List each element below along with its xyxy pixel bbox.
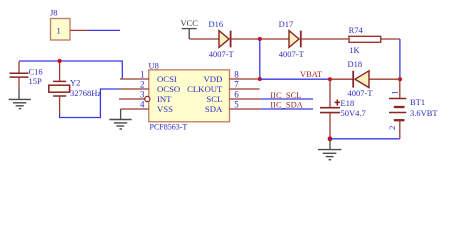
svg-text:4007-T: 4007-T — [279, 49, 305, 59]
node E18 junction — [328, 77, 332, 81]
svg-text:VSS: VSS — [157, 104, 173, 114]
svg-text:SDA: SDA — [205, 104, 223, 114]
svg-text:6: 6 — [234, 90, 239, 100]
svg-text:OCSO: OCSO — [157, 84, 180, 94]
wire junction down to VBAT — [259, 39, 261, 79]
svg-text:SCL: SCL — [206, 94, 222, 104]
svg-text:4: 4 — [140, 100, 145, 110]
wire battery bottom to ground — [330, 138, 400, 140]
svg-text:D18: D18 — [348, 59, 363, 69]
svg-text:OCSI: OCSI — [157, 74, 177, 84]
svg-text:4007-T: 4007-T — [348, 88, 374, 98]
svg-text:3.6VBT: 3.6VBT — [410, 108, 438, 118]
node ground junction — [328, 136, 333, 141]
ground (C16) — [9, 89, 31, 109]
connector J8 — [50, 8, 88, 41]
svg-text:U8: U8 — [149, 60, 159, 70]
pin 4 — [121, 100, 149, 110]
svg-text:2: 2 — [387, 126, 397, 130]
wire R74 to right rail — [381, 38, 400, 40]
resistor R74 — [349, 25, 381, 55]
svg-text:Y2: Y2 — [70, 78, 80, 88]
pin 3 — [119, 90, 150, 102]
svg-text:D17: D17 — [279, 19, 294, 29]
wire Y2 bottom to pin2 — [60, 89, 119, 118]
svg-text:2: 2 — [140, 80, 145, 90]
pin 2 — [119, 80, 149, 90]
capacitor E18 (electrolytic) — [320, 79, 366, 139]
svg-text:R74: R74 — [349, 25, 364, 35]
diode D18 — [330, 59, 400, 98]
pin 1 — [120, 70, 149, 80]
svg-text:1: 1 — [140, 70, 145, 80]
wire top rail C16/Y2 to pin1 — [19, 61, 122, 79]
ground (E18/BT1) — [318, 140, 341, 160]
svg-text:VBAT: VBAT — [300, 69, 323, 79]
op-amp U8 (PCF8563-T RTC) — [149, 60, 230, 131]
wire D16 to D17 — [231, 38, 289, 40]
svg-text:INT: INT — [157, 94, 172, 104]
wire IIC_SDA net — [261, 100, 313, 110]
pin 5 — [230, 100, 262, 110]
svg-text:IIC_SDA: IIC_SDA — [270, 100, 303, 110]
svg-text:5: 5 — [234, 100, 239, 110]
svg-text:VDD: VDD — [203, 74, 222, 84]
svg-text:VCC: VCC — [181, 18, 199, 28]
power VCC — [181, 18, 199, 39]
svg-text:BT1: BT1 — [410, 97, 425, 107]
svg-text:32768Hz: 32768Hz — [70, 88, 101, 98]
wire right rail down — [399, 39, 401, 79]
wire VBAT net — [260, 78, 330, 80]
crystal Y2 — [49, 61, 102, 114]
svg-text:8: 8 — [234, 70, 239, 80]
svg-text:50V4.7: 50V4.7 — [341, 108, 366, 118]
diode D16 — [209, 19, 235, 59]
svg-text:PCF8563-T: PCF8563-T — [150, 123, 188, 132]
svg-text:D16: D16 — [209, 19, 224, 29]
svg-text:3: 3 — [140, 90, 145, 100]
ground (U8 VSS) — [109, 109, 131, 129]
svg-text:1: 1 — [389, 91, 399, 95]
diode D17 — [279, 19, 305, 59]
capacitor C16 — [10, 62, 43, 89]
wire VCC to D16 — [189, 38, 219, 40]
svg-text:1: 1 — [57, 26, 61, 36]
svg-text:7: 7 — [234, 80, 239, 90]
svg-text:4007-T: 4007-T — [209, 49, 235, 59]
svg-text:E18: E18 — [341, 98, 355, 108]
node pin8 VBAT junction — [258, 77, 262, 81]
node VCC diode junction — [258, 37, 262, 41]
battery BT1 — [387, 79, 438, 139]
svg-text:C16: C16 — [29, 66, 43, 76]
wire IIC_SCL net — [261, 90, 313, 100]
svg-text:1K: 1K — [349, 45, 360, 55]
svg-text:IIC_SCL: IIC_SCL — [270, 90, 301, 100]
svg-text:15P: 15P — [29, 76, 43, 86]
pin 8 — [230, 70, 260, 80]
wire J8 net — [88, 29, 120, 31]
pin 6 — [230, 90, 262, 100]
svg-text:J8: J8 — [50, 8, 58, 18]
wire D17 to R74 — [301, 38, 349, 40]
node D18 right junction — [398, 77, 402, 81]
node Y2 top junction — [58, 59, 62, 63]
svg-text:CLKOUT: CLKOUT — [187, 84, 223, 94]
pin 7 — [230, 80, 260, 90]
